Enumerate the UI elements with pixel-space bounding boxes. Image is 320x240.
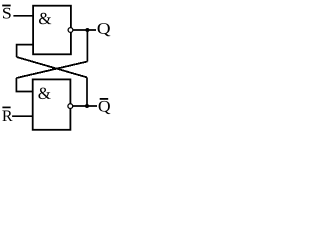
wire U1 output to Q (73, 29, 96, 31)
wire U1 second input (feedback from Q-bar) (17, 45, 33, 57)
wire R-bar to U2 input (12, 115, 33, 117)
U2 output bubble (68, 104, 73, 109)
wire U2 output to Q-bar (73, 105, 97, 107)
wire S-bar to U1 input (13, 15, 33, 17)
node Q junction dot (85, 28, 89, 32)
wire vertical down from Q node (86, 30, 88, 62)
node Q-bar junction dot (85, 104, 89, 108)
background (0, 0, 119, 139)
output label Q-bar (99, 99, 111, 114)
wire diagonal Q-bar feedback crossing (17, 57, 87, 77)
U1 output bubble (68, 28, 73, 33)
output label Q (98, 23, 111, 36)
nand gate U1 body (33, 6, 71, 55)
input label R-bar (2, 107, 12, 121)
U1 function label & (39, 13, 51, 24)
nand gate U2 body (33, 79, 71, 129)
U2 function label & (38, 88, 50, 99)
wire U2 first input (feedback from Q) (16, 78, 32, 92)
wire vertical down to Q-bar node (86, 77, 88, 106)
input label S-bar (2, 6, 11, 19)
wire diagonal Q feedback crossing (16, 62, 87, 79)
